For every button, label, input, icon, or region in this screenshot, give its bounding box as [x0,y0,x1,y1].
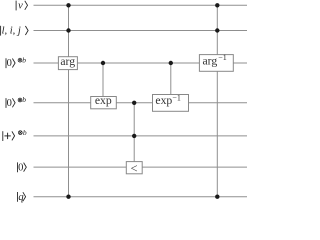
svg-text:b: b [22,95,26,104]
svg-text:b: b [23,128,27,137]
svg-text:0: 0 [7,58,12,69]
svg-text:q: q [18,192,23,203]
svg-text:−1: −1 [218,53,227,62]
svg-text:arg: arg [203,54,218,67]
svg-text:0: 0 [7,98,12,109]
svg-text:l, i, j: l, i, j [2,26,21,37]
svg-text:ν: ν [18,1,23,12]
svg-text:exp: exp [155,94,172,107]
svg-text:b: b [22,55,26,64]
svg-text:arg: arg [60,55,75,68]
svg-text:−1: −1 [172,93,181,102]
svg-text:<: < [130,161,137,175]
svg-text:exp: exp [95,94,112,107]
svg-text:0: 0 [18,162,23,173]
